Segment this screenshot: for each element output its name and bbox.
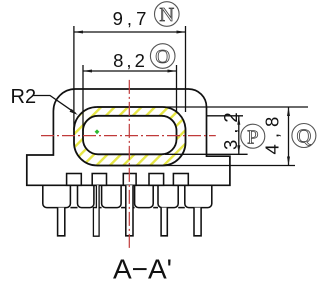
slot web B-C <box>94 207 102 209</box>
extension line bottom inner (3,2) <box>165 153 248 155</box>
dimension line 4,8 <box>288 107 290 166</box>
boss C <box>102 185 122 207</box>
pin 1 <box>58 208 65 236</box>
pin 4 <box>161 208 167 236</box>
dimension line 3,2 <box>238 116 240 155</box>
slot web A-B <box>70 207 77 209</box>
inner stadium (core hole) <box>83 116 177 155</box>
svg-text:A−A': A−A' <box>113 254 172 285</box>
dimension line 8,2 <box>83 70 177 72</box>
red centerline horizontal <box>41 135 216 137</box>
bobbin body outline <box>27 89 230 185</box>
extension line top outer (4,8) <box>97 106 308 108</box>
boss B <box>78 185 94 207</box>
extension line right outer (9,7) <box>185 26 187 112</box>
svg-text:9,7: 9,7 <box>113 8 151 29</box>
slot web C-D <box>121 207 135 209</box>
extension line left outer (9,7) <box>73 26 75 130</box>
extension line left inner (8,2) <box>82 65 84 131</box>
pin 3 (center) <box>126 185 133 236</box>
extension line right inner (8,2) <box>176 65 178 112</box>
balloon N <box>155 2 180 27</box>
dimension line 9,7 <box>74 31 186 33</box>
pin hole square 5 <box>173 174 188 186</box>
boss A <box>43 185 71 207</box>
extension line bottom outer (4,8) <box>97 165 295 167</box>
boss F <box>185 185 212 207</box>
extension line top inner (3,2) <box>207 115 243 117</box>
pin hole square 2 <box>92 174 106 186</box>
pin hole square 4 <box>149 174 164 186</box>
leader R2 <box>34 96 76 114</box>
winding tube wall hatch (section) <box>74 107 186 166</box>
outer stadium (winding window outer wall) <box>74 107 186 166</box>
pin 2 (far row, thin) <box>93 185 99 236</box>
svg-text:R2: R2 <box>11 86 37 108</box>
pin hole square 3 <box>123 174 136 186</box>
red centerline vertical <box>128 80 130 249</box>
svg-text:Q: Q <box>296 126 311 148</box>
balloon O <box>150 44 175 69</box>
pin 5 <box>194 208 201 236</box>
svg-text:3,2: 3,2 <box>220 106 241 150</box>
balloon P <box>241 124 265 148</box>
svg-text:P: P <box>247 126 258 148</box>
pin hole square 1 <box>67 174 82 186</box>
slot web D-E <box>153 207 158 209</box>
boss E <box>158 185 178 207</box>
svg-text:N: N <box>159 4 174 26</box>
green reference dot <box>95 129 100 134</box>
svg-text:O: O <box>155 46 170 68</box>
svg-text:8,2: 8,2 <box>113 50 148 71</box>
boss D <box>135 185 154 207</box>
balloon Q <box>292 124 316 148</box>
slot web E-F <box>178 207 185 209</box>
